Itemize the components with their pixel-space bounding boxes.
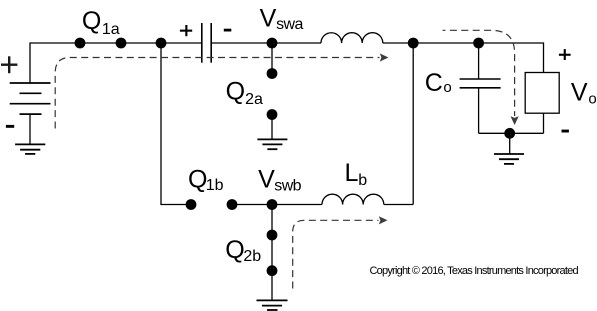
switch Q2a wire to ground — [271, 115, 273, 140]
dashed current path b (ground through Q2b, Lb) — [293, 220, 379, 288]
wire output bottom rail — [479, 132, 544, 134]
switch Q2a wire from node to contact — [271, 43, 273, 74]
svg-text:b: b — [358, 172, 367, 189]
inductor La — [321, 33, 383, 43]
wire left vertical branch down to bottom row — [161, 43, 191, 205]
arrowhead current path output — [511, 116, 519, 125]
svg-text:1b: 1b — [206, 177, 224, 194]
capacitor Co plates — [460, 78, 501, 80]
ground battery — [15, 144, 45, 154]
svg-text:Q: Q — [226, 78, 245, 106]
label + (capacitor) — [180, 25, 192, 36]
switch Q1a contact dot 1 — [75, 38, 86, 49]
node junction dot (Co top) — [473, 38, 484, 49]
node junction dot (top of left branch) — [156, 38, 167, 49]
capacitor Co bottom lead — [478, 88, 480, 134]
label + (load) — [559, 49, 571, 60]
wire from inductor La to load corner — [383, 43, 544, 73]
arrowhead current path a — [380, 53, 389, 61]
label - (capacitor) — [224, 29, 232, 32]
svg-text:V: V — [260, 4, 277, 32]
capacitor Cfly plate left — [201, 23, 203, 63]
inductor Lb — [322, 194, 384, 204]
load resistor rectangle — [525, 73, 559, 114]
node ground dot (output) — [504, 128, 515, 139]
label - (battery) — [6, 125, 14, 128]
load bottom lead — [543, 113, 545, 133]
wire from capacitor to inductor La — [211, 42, 321, 44]
svg-text:V: V — [258, 166, 275, 194]
node V_swb junction dot — [267, 199, 278, 210]
switch Q2b contact dot 1 — [267, 230, 278, 241]
svg-text:o: o — [443, 79, 451, 96]
capacitor Co top lead — [478, 43, 480, 79]
label + (battery) — [1, 56, 17, 73]
svg-text:1a: 1a — [102, 21, 120, 38]
switch Q2b contact dot 2 — [267, 265, 278, 276]
svg-text:Q: Q — [82, 7, 101, 35]
svg-text:C: C — [425, 69, 443, 97]
svg-text:o: o — [588, 91, 596, 108]
switch Q1b contact dot 1 — [186, 199, 197, 210]
switch Q2a contact dot 2 — [267, 109, 278, 120]
battery V_in — [10, 83, 51, 144]
dashed current path output (into ground node) — [443, 30, 515, 116]
label - (load) — [562, 130, 569, 133]
svg-text:Q: Q — [225, 236, 244, 264]
node V_swa junction dot — [267, 38, 278, 49]
ground output — [494, 154, 524, 164]
svg-text:2a: 2a — [245, 91, 263, 108]
svg-text:swa: swa — [276, 16, 303, 33]
arrowhead current path b — [379, 216, 388, 224]
ground Q2a — [257, 139, 287, 149]
switch Q2a contact dot 1 — [267, 68, 278, 79]
wire right vertical branch (La node down to Lb output) — [412, 43, 414, 205]
wire Q1b to V_swb node — [232, 204, 322, 206]
svg-text:V: V — [571, 79, 588, 107]
svg-text:2b: 2b — [243, 248, 261, 265]
ground output stub — [509, 133, 511, 154]
capacitor Cfly plate right — [210, 23, 212, 63]
ground Q2b — [257, 300, 288, 310]
dashed current path a (battery through Q1a, cap, La) — [55, 58, 379, 129]
switch Q2b wire (closed) through contacts to ground — [271, 205, 273, 301]
wire top rail from battery to capacitor — [30, 43, 202, 83]
switch Q1a contact dot 2 — [116, 38, 127, 49]
svg-text:L: L — [345, 159, 359, 187]
switch Q1b contact dot 2 — [227, 199, 238, 210]
wire Lb to right vertical — [384, 204, 413, 206]
svg-text:swb: swb — [274, 177, 301, 194]
svg-text:Copyright © 2016, Texas Instru: Copyright © 2016, Texas Instruments Inco… — [370, 265, 579, 277]
node junction dot (La output) — [408, 38, 419, 49]
svg-text:Q: Q — [188, 166, 207, 194]
